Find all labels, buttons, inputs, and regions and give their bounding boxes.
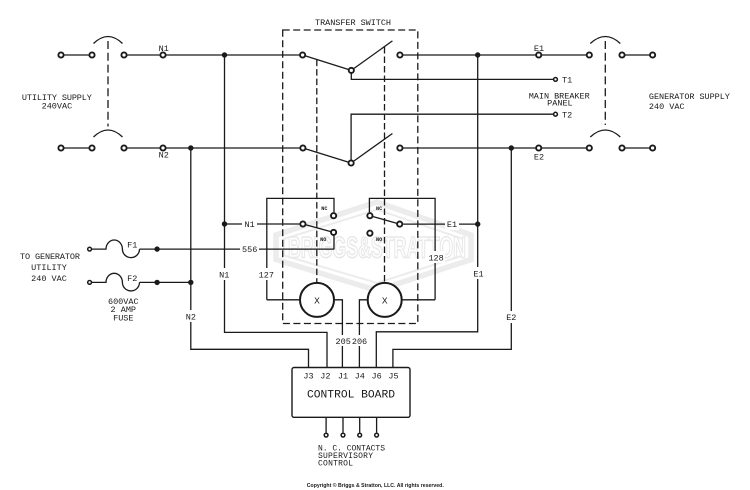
terminal N1 <box>160 52 165 57</box>
junction F2 wire <box>154 280 159 285</box>
switch S1 blade closed to N1 <box>303 55 352 70</box>
fuse F2 <box>92 273 140 291</box>
wire F2 to N2 <box>140 281 191 283</box>
svg-text:NO: NO <box>376 237 382 243</box>
svg-text:E1: E1 <box>534 44 544 54</box>
svg-text:J1: J1 <box>338 372 348 382</box>
label N.C. CONTACTS SUPERVISORY CONTROL <box>318 445 385 469</box>
svg-text:J4: J4 <box>355 372 365 382</box>
transfer switch dashed box <box>283 30 418 324</box>
junction node N1 relay feed <box>222 221 227 226</box>
svg-text:J2: J2 <box>320 372 330 382</box>
junction node N1 top <box>222 52 227 57</box>
terminal T1 <box>554 78 558 82</box>
relay K2 NC contact <box>367 213 372 218</box>
switch S1 common <box>349 68 354 73</box>
svg-text:Copyright © Briggs & Stratton,: Copyright © Briggs & Stratton, LLC. All … <box>307 482 444 489</box>
breaker CB1 tie-bar dashed <box>107 41 109 127</box>
relay K2 NO contact <box>367 231 372 236</box>
svg-text:J5: J5 <box>388 372 398 382</box>
watermark Briggs&Stratton badge <box>276 202 471 291</box>
junction node E1 top <box>475 52 480 57</box>
svg-text:E1: E1 <box>447 220 457 230</box>
svg-text:127: 127 <box>259 271 274 281</box>
svg-text:J3: J3 <box>303 372 313 382</box>
svg-text:CONTROL BOARD: CONTROL BOARD <box>307 389 395 401</box>
svg-text:F1: F1 <box>127 241 137 251</box>
relay K2 common contact <box>397 222 402 227</box>
relay K1 common contact <box>300 221 305 226</box>
relay K2 feed wire E1 <box>403 223 478 225</box>
breaker CB2 tie-bar dashed <box>604 41 606 125</box>
wire N1 drop to J2 <box>225 55 328 368</box>
svg-text:NC: NC <box>376 206 382 212</box>
switch S2 contact E <box>397 145 402 150</box>
junction F1 wire 556 <box>154 246 159 251</box>
switch S1 blade open to E1 <box>351 41 392 71</box>
svg-text:NC: NC <box>321 206 327 212</box>
mechanical linkage coil X2 dashed <box>384 47 386 283</box>
fuse F1 <box>92 240 140 258</box>
wire N2 bottom row <box>61 147 303 149</box>
switch S2 blade closed to N2 <box>303 148 351 163</box>
svg-text:205: 205 <box>336 337 351 347</box>
svg-text:CONTROL: CONTROL <box>318 459 353 468</box>
switch S2 contact N <box>300 145 305 150</box>
switch S1 contact N <box>300 52 305 57</box>
breaker CB2 generator arc pole1 <box>590 37 620 44</box>
wire S2 common to T2 <box>351 114 553 163</box>
terminal E1 <box>536 52 541 57</box>
svg-text:NO: NO <box>320 237 326 243</box>
svg-text:X: X <box>314 295 320 306</box>
relay K1 blade <box>303 224 334 232</box>
breaker CB1 utility arc pole1 <box>94 37 123 44</box>
relay K2 blade <box>370 216 400 224</box>
wire S1 common to T1 <box>351 70 553 79</box>
wire coil X2 leads 206 and 128 <box>359 300 435 368</box>
switch S2 blade open to E2 <box>351 134 392 164</box>
wire E1 drop to J6 <box>376 55 477 368</box>
wire E2 bottom row <box>400 147 653 149</box>
svg-text:240VAC: 240VAC <box>42 101 73 111</box>
svg-text:T1: T1 <box>562 76 572 86</box>
switch S2 common <box>349 160 354 165</box>
svg-text:T2: T2 <box>562 111 572 121</box>
fuse F2 terminal <box>88 281 92 285</box>
svg-text:E2: E2 <box>534 152 544 162</box>
terminal T2 <box>554 112 558 116</box>
breaker CB2 generator arc pole2 <box>590 130 620 137</box>
svg-text:X: X <box>382 295 388 306</box>
relay K1 NO contact <box>331 230 336 235</box>
svg-text:556: 556 <box>242 245 257 255</box>
control board output terminals <box>324 433 328 437</box>
svg-text:PANEL: PANEL <box>547 99 573 109</box>
svg-text:E1: E1 <box>473 270 483 280</box>
mechanical linkage coil X1 dashed <box>316 60 318 283</box>
breaker CB2 generator pole2 terminals <box>587 145 592 150</box>
breaker CB2 generator pole1 terminals <box>587 52 592 57</box>
svg-text:N1: N1 <box>159 44 169 54</box>
terminal N2 <box>160 145 165 150</box>
wire E2 drop to J5 <box>393 148 511 368</box>
svg-text:TRANSFER SWITCH: TRANSFER SWITCH <box>315 18 391 28</box>
relay K1 NC contact <box>331 213 336 218</box>
svg-text:128: 128 <box>428 254 443 264</box>
junction F2 to N2 <box>188 280 193 285</box>
svg-text:N1: N1 <box>244 220 254 230</box>
wire coil X1 leads 127 and 205 <box>267 300 343 368</box>
svg-text:F2: F2 <box>127 274 137 284</box>
svg-text:FUSE: FUSE <box>113 313 133 323</box>
breaker CB1 utility pole2 terminals <box>58 145 63 150</box>
junction node N2 <box>188 145 193 150</box>
svg-text:TO GENERATOR: TO GENERATOR <box>20 252 80 262</box>
breaker CB1 utility arc pole2 <box>94 130 123 137</box>
coil X1 solenoid <box>300 283 334 317</box>
svg-text:240 VAC: 240 VAC <box>649 102 685 112</box>
svg-text:N1: N1 <box>219 270 229 280</box>
svg-text:N2: N2 <box>186 312 196 322</box>
svg-text:206: 206 <box>352 337 367 347</box>
svg-text:J6: J6 <box>371 372 381 382</box>
junction node E1 relay feed <box>475 221 480 226</box>
wire N1 top row <box>61 54 303 56</box>
wire N2 drop to J3 <box>191 148 309 368</box>
relay K1 feed wire N1 <box>225 223 300 225</box>
wire control board output leads <box>326 417 377 432</box>
coil X2 solenoid <box>368 283 402 317</box>
svg-text:GENERATOR SUPPLY: GENERATOR SUPPLY <box>649 92 730 102</box>
wire E1 top row <box>400 54 653 56</box>
wire label gap masks <box>184 218 518 346</box>
breaker CB1 utility pole1 terminals <box>58 52 63 57</box>
terminal E2 <box>536 145 541 150</box>
control board box <box>292 368 410 418</box>
relay K1 frame wire 127 <box>267 198 334 299</box>
svg-text:240 VAC: 240 VAC <box>31 274 67 284</box>
svg-text:UTILITY: UTILITY <box>31 263 67 273</box>
relay K2 frame wire 128 <box>369 198 435 299</box>
fuse F1 terminal <box>88 247 92 251</box>
svg-text:N2: N2 <box>159 151 169 161</box>
junction node E2 <box>509 145 514 150</box>
svg-text:E2: E2 <box>506 313 516 323</box>
switch S1 contact E <box>397 52 402 57</box>
wire 556 <box>140 248 335 250</box>
